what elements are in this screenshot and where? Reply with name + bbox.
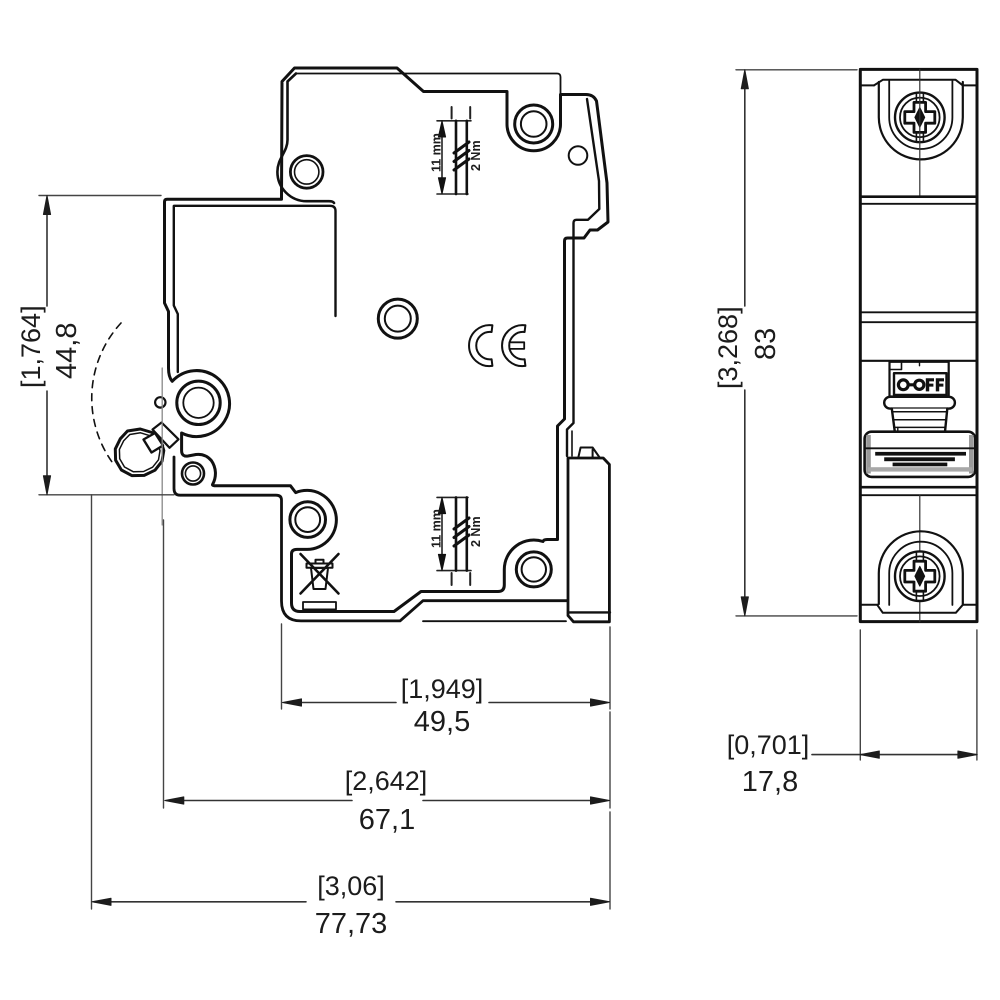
pivot dot	[155, 397, 165, 407]
top screw head circles	[895, 93, 945, 143]
indicator window outer	[890, 362, 949, 397]
bottom-left inner corner and bottom contour	[174, 457, 567, 621]
clip spring thin line	[571, 431, 573, 456]
svg-text:49,5: 49,5	[414, 706, 470, 738]
dimension 49,5 bottom	[282, 624, 611, 738]
bottom terminal stub lines	[860, 604, 977, 606]
bottom screw head circles	[895, 551, 945, 601]
lever grip rectangle	[144, 433, 164, 453]
top terminal stub lines	[860, 84, 977, 86]
dimension 44,8 left	[16, 196, 174, 495]
dimension 17,8 bottom right	[727, 630, 977, 798]
bottom terminal depth detail	[430, 497, 484, 585]
front body rectangle	[860, 69, 977, 621]
CE mark letter E	[502, 325, 525, 366]
lever inner contour	[119, 433, 160, 472]
center rivet circles	[378, 299, 417, 338]
section line below handle	[860, 486, 977, 489]
bottom terminal dome inner	[889, 542, 952, 605]
top-left screw pocket contour	[277, 74, 334, 204]
foot release tab	[578, 448, 599, 459]
bottom screw phillips cross	[905, 561, 935, 591]
clip lever knob	[115, 429, 164, 476]
top screw circles	[515, 105, 553, 143]
svg-text:77,73: 77,73	[315, 908, 388, 940]
WEEE crossed-out bin symbol	[301, 554, 339, 594]
svg-text:17,8: 17,8	[742, 766, 798, 798]
svg-text:[3,06]: [3,06]	[317, 871, 385, 901]
lever neck	[153, 423, 179, 448]
inner right contour (DIN notch)	[567, 99, 599, 456]
centerline through clip	[161, 368, 163, 525]
toggle collar	[884, 397, 955, 409]
svg-text:2 Nm: 2 Nm	[469, 516, 483, 547]
rear bottom thin line	[423, 620, 566, 622]
breaker front shell outer contour	[165, 68, 609, 612]
bottom screw slot lines	[916, 552, 923, 600]
dimension 83 / 3,268	[713, 70, 857, 616]
svg-text:44,8: 44,8	[51, 323, 83, 379]
svg-text:[2,642]: [2,642]	[345, 766, 428, 796]
small circle top right	[569, 146, 588, 165]
svg-text:11 mm: 11 mm	[430, 133, 444, 172]
OFF label plate	[894, 373, 947, 395]
dimension 77,73 bottom	[92, 495, 611, 940]
label window rectangle	[303, 602, 336, 609]
lever travel dashed arc	[92, 323, 121, 462]
top terminal pocket chamfer	[874, 80, 963, 86]
toggle section top line	[860, 360, 977, 362]
top-left screw circles	[290, 156, 323, 189]
small screw circles	[182, 463, 204, 485]
svg-text:2 Nm: 2 Nm	[469, 140, 483, 171]
svg-text:[1,949]: [1,949]	[401, 674, 484, 704]
bottom-right screw circles	[516, 552, 551, 587]
bottom pocket chamfers	[877, 605, 963, 613]
top terminal depth detail	[430, 107, 484, 194]
mid section lines	[860, 311, 977, 313]
dimension 67,1 bottom	[164, 520, 611, 836]
top screw slot lines	[916, 94, 923, 142]
lower body contour (rear edge)	[174, 206, 336, 372]
svg-text:83: 83	[750, 328, 782, 360]
top terminal U pocket outer	[879, 82, 963, 159]
foot shelf line	[568, 611, 610, 613]
vertical centerline top	[919, 69, 921, 196]
pivot circles	[177, 381, 220, 424]
rear top thin contour	[296, 74, 561, 94]
svg-text:67,1: 67,1	[359, 804, 415, 836]
toggle handle	[865, 432, 976, 477]
top screw phillips cross	[905, 102, 935, 132]
svg-text:[3,268]: [3,268]	[713, 306, 743, 389]
bottom terminal dome outer	[879, 531, 963, 604]
CE mark letter C	[469, 325, 492, 366]
vertical centerline bottom	[919, 495, 921, 621]
toggle stem	[892, 409, 948, 432]
svg-text:[1,764]: [1,764]	[16, 305, 46, 388]
svg-text:11 mm: 11 mm	[430, 509, 444, 548]
section line below terminal	[860, 195, 977, 198]
svg-text:[0,701]: [0,701]	[727, 730, 810, 760]
top terminal U pocket inner	[889, 81, 952, 149]
bottom-left screw circles	[290, 502, 326, 538]
DIN clip foot	[568, 458, 609, 622]
